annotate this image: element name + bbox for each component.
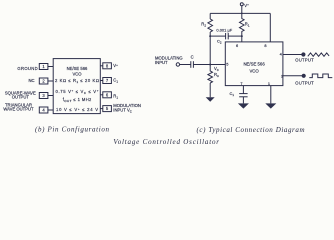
svg-text:C: C <box>191 55 194 60</box>
wire pin1 to ground <box>270 86 272 104</box>
svg-text:5: 5 <box>106 106 109 111</box>
wire R2 to VC node <box>209 32 211 65</box>
square wave symbol <box>309 74 332 78</box>
wire pin7 to C1 <box>242 86 244 94</box>
label TRIANGULAR WAVE OUTPUT pin4 <box>3 103 34 112</box>
svg-text:GROUND: GROUND <box>17 66 37 71</box>
svg-text:NE/SE 566: NE/SE 566 <box>243 61 265 66</box>
wire top rail <box>210 12 270 14</box>
svg-text:INPUT VC: INPUT VC <box>113 107 132 113</box>
output terminal pin3 <box>302 74 305 77</box>
pin 2 box <box>39 78 53 84</box>
svg-text:2 KΩ ≤ R1 ≤ 20 KΩ: 2 KΩ ≤ R1 ≤ 20 KΩ <box>55 78 99 84</box>
capacitor C1 plates <box>239 94 247 97</box>
capacitor C plates <box>191 61 194 68</box>
svg-text:R2: R2 <box>201 22 206 28</box>
wire pin6 node to IC <box>241 36 243 42</box>
svg-text:INPUT: INPUT <box>155 60 168 65</box>
svg-text:NC: NC <box>28 78 34 83</box>
svg-text:8: 8 <box>106 63 109 68</box>
svg-text:3: 3 <box>42 93 45 98</box>
svg-text:C1: C1 <box>113 78 118 84</box>
svg-text:fOUT ≤ 1 MHz: fOUT ≤ 1 MHz <box>63 97 92 103</box>
resistor R2 <box>208 19 213 32</box>
svg-text:1: 1 <box>268 81 270 86</box>
modulating input terminal <box>176 63 179 66</box>
IC package U1 (pin configuration) <box>53 59 100 114</box>
junction dot VC node <box>209 64 211 66</box>
svg-text:R1: R1 <box>113 93 118 99</box>
svg-text:3: 3 <box>281 74 283 79</box>
wire C2 to pin6 node <box>228 35 242 37</box>
label MODULATION INPUT VC pin5 <box>113 103 141 113</box>
wire input to C <box>180 64 191 66</box>
svg-text:(b) Pin Configuration: (b) Pin Configuration <box>35 126 110 134</box>
label SQUARE-WAVE OUTPUT pin3 <box>5 90 36 99</box>
junction dot R1/C2/pin6 <box>241 35 243 37</box>
wire rail to pin8 <box>269 13 271 42</box>
pin 1 box <box>39 64 53 70</box>
wire pin4 output <box>283 54 302 56</box>
pin 5 box <box>100 106 111 112</box>
svg-text:4: 4 <box>280 52 283 57</box>
ground symbol below R3 <box>206 97 215 102</box>
svg-text:NE/SE 566: NE/SE 566 <box>67 66 88 71</box>
resistor R1 <box>240 13 245 36</box>
svg-text:8: 8 <box>264 43 266 48</box>
svg-text:Voltage Controlled Oscillator: Voltage Controlled Oscillator <box>113 138 219 146</box>
svg-text:VCO: VCO <box>249 68 259 73</box>
svg-text:V+: V+ <box>113 63 118 68</box>
junction dot R2/C2 <box>209 35 211 37</box>
svg-text:7: 7 <box>240 81 242 86</box>
wire C1 to ground <box>242 97 244 104</box>
junction dot V+ rail <box>241 13 243 15</box>
svg-text:6: 6 <box>236 43 238 48</box>
svg-text:R3: R3 <box>214 72 219 78</box>
resistor R3 <box>208 65 213 84</box>
wire pin3 output <box>283 75 302 77</box>
svg-text:6: 6 <box>106 92 109 97</box>
output terminal pin4 <box>302 53 305 56</box>
svg-text:5: 5 <box>226 61 228 66</box>
svg-text:7: 7 <box>106 78 109 83</box>
ground symbol below pin1 <box>265 103 276 108</box>
svg-text:OUTPUT: OUTPUT <box>295 58 314 63</box>
wire R3 to ground <box>209 83 211 97</box>
V+ supply terminal <box>240 3 243 6</box>
svg-text:(c) Typical Connection Diagram: (c) Typical Connection Diagram <box>197 126 305 134</box>
svg-text:0.75 V+ ≤ VC ≤ V+: 0.75 V+ ≤ VC ≤ V+ <box>56 89 99 95</box>
pin 6 box <box>100 92 111 98</box>
pin 3 box <box>39 93 53 99</box>
svg-text:2: 2 <box>42 79 45 84</box>
IC U1 NE/SE 566 box <box>225 42 283 86</box>
label MODULATING INPUT <box>155 55 183 65</box>
pin 4 box <box>39 107 53 113</box>
svg-text:4: 4 <box>42 108 45 113</box>
ground symbol below C1 <box>238 103 249 108</box>
svg-text:V+: V+ <box>244 3 249 8</box>
svg-text:C1: C1 <box>229 91 234 97</box>
wire C to pin5 <box>193 64 225 66</box>
svg-text:WAVE OUTPUT: WAVE OUTPUT <box>3 107 34 112</box>
svg-text:OUTPUT: OUTPUT <box>12 95 30 100</box>
wire rail to R2 <box>209 13 211 19</box>
capacitor C2 plates <box>226 33 229 39</box>
svg-text:10 V ≤ V+ ≤ 24 V: 10 V ≤ V+ ≤ 24 V <box>56 107 98 112</box>
svg-text:C2: C2 <box>217 39 222 45</box>
pin 7 box <box>100 78 111 84</box>
svg-text:0.001 µF: 0.001 µF <box>216 27 232 32</box>
svg-text:VCO: VCO <box>72 72 82 77</box>
wire V+ to rail <box>241 6 243 14</box>
svg-text:1: 1 <box>42 64 45 69</box>
wire C2 branch left <box>210 35 225 37</box>
svg-text:R1: R1 <box>245 22 250 28</box>
triangle wave symbol <box>308 53 329 56</box>
pin 8 box <box>100 63 111 69</box>
svg-text:OUTPUT: OUTPUT <box>295 80 314 85</box>
